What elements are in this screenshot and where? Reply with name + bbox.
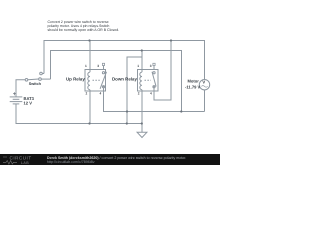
wire throw A to net1 bbox=[42, 73, 44, 75]
svg-text:CIRCUIT: CIRCUIT bbox=[10, 156, 32, 161]
node horizontal A branch bbox=[126, 110, 128, 112]
relay U1 contact terminals bbox=[102, 72, 104, 88]
wire net1 down to U1 coil top pin (crosses net2) bbox=[89, 41, 91, 73]
wire throw B to net2 bbox=[41, 78, 50, 80]
ground symbol triangle bbox=[137, 132, 147, 137]
motor M1 voltmeter circle bbox=[199, 80, 209, 90]
wire motor bottom to horizontal A bbox=[204, 90, 206, 112]
wire U1 contact bottom pin down to horizontal A bbox=[104, 88, 205, 112]
svg-text:1: 1 bbox=[137, 64, 139, 68]
svg-text:3: 3 bbox=[97, 64, 99, 68]
circuitlab logo bbox=[3, 156, 32, 165]
component labels bbox=[24, 76, 206, 105]
svg-text:LAB: LAB bbox=[21, 161, 29, 165]
wire U2 coil bottom pin down to rail and ground stem bbox=[141, 90, 143, 133]
wire battery bottom to ground rail bbox=[16, 104, 142, 124]
relay U1 Up Relay box bbox=[85, 70, 106, 92]
title text block bbox=[48, 20, 120, 32]
footer text bbox=[47, 156, 186, 164]
svg-text:12 V: 12 V bbox=[24, 100, 33, 105]
svg-text:3: 3 bbox=[150, 64, 152, 68]
wire battery top to switch common bbox=[16, 80, 25, 97]
svg-text:http://circuitlab.com/c/7896t8: http://circuitlab.com/c/7896t8v bbox=[47, 160, 95, 164]
battery BAT3 plates bbox=[10, 97, 23, 104]
svg-text:-11.79 V: -11.79 V bbox=[185, 84, 201, 89]
junction dots bbox=[88, 39, 182, 124]
relay U1 mechanical link dashed bbox=[93, 79, 100, 81]
wire net2 dot down to U2 coil top pin bbox=[141, 51, 143, 73]
node net2 to U2 coil bbox=[141, 49, 143, 51]
wire U2 contact bottom pin loop up to net1 bbox=[154, 41, 171, 101]
wire net2 from switch throw B to lower-right vertical bbox=[51, 51, 182, 112]
svg-text:1: 1 bbox=[85, 64, 87, 68]
svg-text:4: 4 bbox=[150, 91, 152, 95]
battery plus sign bbox=[13, 92, 16, 95]
relay U1 coil bbox=[88, 72, 90, 90]
relay U2 contact top pin stub with open terminal square bbox=[153, 63, 155, 69]
switch SW1 throw A terminal bbox=[40, 72, 43, 75]
svg-text:Switch: Switch bbox=[29, 82, 42, 86]
wire U1 coil bottom pin to ground rail bbox=[89, 90, 91, 124]
svg-text:2: 2 bbox=[86, 91, 88, 95]
relay U1 contact top pin stub with open terminal square bbox=[102, 63, 104, 69]
node rail ground stem bbox=[141, 122, 143, 124]
svg-text:Down Relay: Down Relay bbox=[112, 76, 137, 81]
relay U2 coil bbox=[140, 72, 142, 90]
relay U2 Down Relay box bbox=[138, 70, 159, 92]
svg-text:Up Relay: Up Relay bbox=[66, 76, 85, 81]
switch SW1 throw B terminal bbox=[39, 78, 42, 81]
svg-text:V: V bbox=[202, 79, 205, 84]
node rail U1 coil return bbox=[88, 122, 90, 124]
node net1 to U2 contact loop bbox=[170, 39, 172, 41]
svg-text:2: 2 bbox=[138, 91, 140, 95]
node net1 to U1 coil bbox=[88, 39, 90, 41]
switch SW1 common terminal bbox=[25, 79, 28, 82]
svg-text:4: 4 bbox=[100, 91, 102, 95]
node rail branch bbox=[126, 122, 128, 124]
relay pin numbers bbox=[85, 64, 152, 96]
svg-text:should be normally open with A: should be normally open with A OR B Clos… bbox=[48, 28, 120, 32]
relay U1 contact lever (open) bbox=[100, 72, 106, 89]
relay U2 contact terminals bbox=[153, 72, 155, 88]
relay U2 contact lever (closed) bbox=[152, 72, 156, 87]
wire branch from U2 coil pin left then down across horizontal A to rail bbox=[127, 57, 142, 124]
footer bar bbox=[0, 154, 220, 165]
node horizontal A net2 vertical bbox=[180, 110, 182, 112]
svg-text:Motor: Motor bbox=[188, 78, 200, 83]
switch SW1 lever bbox=[28, 78, 39, 81]
wire net1 top horizontal from switch throw A to motor top bbox=[44, 41, 205, 80]
relay U2 mechanical link dashed bbox=[145, 79, 151, 81]
